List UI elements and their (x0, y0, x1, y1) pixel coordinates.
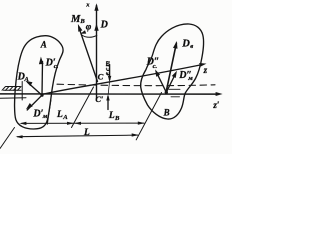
svg-text:A: A (23, 76, 29, 83)
svg-text:φ: φ (86, 22, 92, 32)
svg-text:c.: c. (153, 63, 158, 70)
svg-text:z: z (203, 65, 208, 75)
svg-text:B: B (114, 115, 120, 122)
svg-text:L: L (56, 110, 63, 120)
svg-text:A: A (62, 114, 68, 121)
svg-text:B: B (163, 108, 170, 118)
svg-text:A: A (40, 39, 47, 49)
svg-text:D: D (181, 39, 190, 50)
svg-text:в: в (190, 43, 193, 50)
svg-text:ест: ест (103, 60, 111, 76)
svg-text:x: x (85, 1, 90, 8)
svg-text:D: D (100, 19, 108, 30)
svg-text:L: L (108, 111, 115, 121)
svg-text:z′: z′ (212, 100, 220, 110)
svg-text:C: C (98, 72, 104, 82)
svg-text:м: м (187, 75, 193, 82)
svg-text:B: B (79, 18, 85, 25)
svg-text:c.: c. (54, 63, 59, 70)
svg-text:м: м (42, 113, 48, 120)
svg-text:M: M (70, 14, 81, 25)
svg-text:L: L (83, 128, 90, 138)
svg-text:C′: C′ (95, 94, 103, 104)
